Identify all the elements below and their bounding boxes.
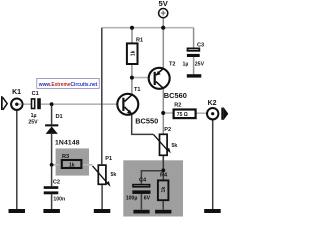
svg-text:100n: 100n: [53, 196, 65, 202]
svg-text:C1: C1: [32, 91, 39, 97]
svg-text:P2: P2: [164, 127, 171, 133]
svg-text:R1: R1: [136, 38, 143, 44]
svg-text:6V: 6V: [144, 196, 151, 202]
svg-text:1µ: 1µ: [31, 113, 37, 119]
svg-text:1µ: 1µ: [183, 61, 189, 67]
svg-text:BC550: BC550: [135, 116, 158, 125]
svg-text:1k: 1k: [161, 187, 167, 193]
svg-text:75 Ω: 75 Ω: [177, 112, 188, 118]
svg-text:P1: P1: [105, 156, 112, 162]
svg-text:1k: 1k: [69, 163, 75, 169]
svg-text:100µ: 100µ: [126, 196, 138, 202]
svg-text:BC560: BC560: [164, 91, 187, 100]
svg-text:1k: 1k: [130, 50, 136, 56]
svg-text:K2: K2: [208, 100, 217, 107]
svg-text:R4: R4: [160, 172, 168, 178]
svg-text:C2: C2: [53, 180, 60, 186]
svg-text:www.ExtremeCircuits.net: www.ExtremeCircuits.net: [38, 82, 98, 88]
svg-text:25V: 25V: [28, 119, 38, 125]
svg-text:C3: C3: [197, 43, 204, 49]
svg-text:D1: D1: [56, 114, 63, 120]
svg-text:R3: R3: [62, 154, 69, 160]
svg-text:5k: 5k: [172, 143, 178, 149]
svg-text:T1: T1: [134, 87, 141, 93]
svg-text:5V: 5V: [159, 0, 169, 8]
svg-text:K1: K1: [12, 89, 21, 96]
svg-text:1N4148: 1N4148: [55, 140, 80, 147]
svg-text:25V: 25V: [195, 61, 205, 67]
svg-text:5k: 5k: [111, 172, 117, 178]
svg-text:T2: T2: [169, 61, 176, 67]
svg-text:C4: C4: [139, 178, 147, 184]
svg-text:R2: R2: [174, 103, 181, 109]
